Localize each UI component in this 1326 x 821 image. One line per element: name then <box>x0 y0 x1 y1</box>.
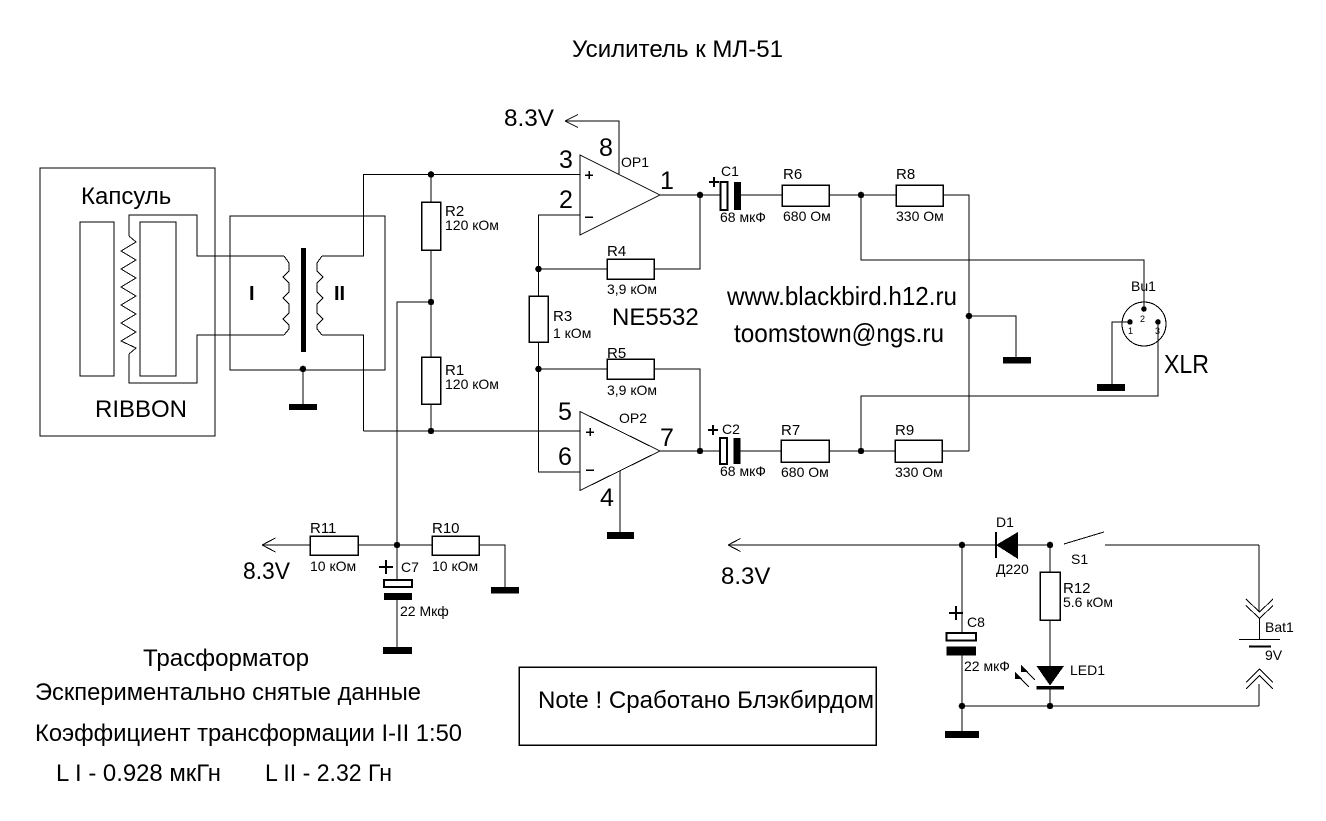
wire OP2 output <box>660 450 700 452</box>
svg-text:toomstown@ngs.ru: toomstown@ngs.ru <box>734 318 944 348</box>
svg-text:Капсуль: Капсуль <box>81 183 171 210</box>
title <box>572 36 783 63</box>
svg-text:5.6 кОм: 5.6 кОм <box>1063 594 1113 610</box>
resistor R3 <box>529 269 591 369</box>
node C8 top junction <box>959 542 966 549</box>
svg-text:4: 4 <box>600 484 614 512</box>
bottom rail wire <box>962 705 1259 707</box>
ground (XLR pin1) <box>1097 384 1125 391</box>
capacitor C2 <box>700 421 781 479</box>
capacitor C8 <box>947 545 1010 706</box>
wire winding II top to node <box>322 174 364 256</box>
node output divider ground tap <box>966 313 1016 357</box>
svg-text:L II - 2.32 Гн: L II - 2.32 Гн <box>265 760 392 787</box>
resistor R11 <box>310 520 432 574</box>
svg-text:120 кОм: 120 кОм <box>445 376 499 392</box>
svg-text:120 кОм: 120 кОм <box>445 217 499 233</box>
note box <box>519 667 876 745</box>
svg-text:680 Ом: 680 Ом <box>783 208 831 224</box>
wire R6/R8 node to XLR pin2 <box>861 195 1144 309</box>
svg-text:10 кОм: 10 кОм <box>432 558 478 574</box>
capacitor C1 <box>700 163 782 225</box>
svg-text:Коэффициент трансформации I-II: Коэффициент трансформации I-II 1:50 <box>35 720 462 747</box>
wire XLR pin1 to ground <box>1112 322 1130 384</box>
svg-text:1: 1 <box>660 167 674 195</box>
ground (R10) <box>491 587 519 594</box>
svg-text:Усилитель к МЛ-51: Усилитель к МЛ-51 <box>572 36 783 63</box>
svg-text:RIBBON: RIBBON <box>95 396 187 423</box>
wire winding II bottom to lower rail <box>322 335 364 431</box>
svg-text:C8: C8 <box>967 614 985 630</box>
svg-text:R5: R5 <box>607 345 626 362</box>
resistor R2 <box>422 174 499 302</box>
node R2/R1 midpoint <box>428 299 435 306</box>
wire OP1 pin8 to 8.3V <box>565 121 619 174</box>
svg-text:8.3V: 8.3V <box>504 105 554 132</box>
svg-text:R8: R8 <box>896 166 915 183</box>
svg-text:R3: R3 <box>553 308 572 325</box>
wire ribbon bottom terminal bracket <box>129 335 284 383</box>
svg-text:22 мкФ: 22 мкФ <box>964 658 1010 674</box>
ground (C7) <box>383 647 412 654</box>
node bias junction <box>394 542 401 549</box>
node R6/R8 <box>858 192 865 199</box>
magnet right bar <box>140 222 176 376</box>
svg-text:C7: C7 <box>401 559 419 575</box>
svg-text:330 Ом: 330 Ом <box>895 464 943 480</box>
svg-text:www.blackbird.h12.ru: www.blackbird.h12.ru <box>726 281 957 311</box>
website text <box>726 281 957 311</box>
svg-text:8.3V: 8.3V <box>243 558 290 585</box>
transformer data text <box>35 645 462 787</box>
8.3V arrow (power output) <box>721 539 962 591</box>
capacitor C7 <box>379 545 449 647</box>
op-amp OP1 <box>559 134 674 235</box>
capsule box <box>40 168 215 436</box>
wire top rail to OP1 pin3 <box>364 174 581 176</box>
ribbon element (zigzag) <box>121 236 136 354</box>
svg-text:S1: S1 <box>1071 551 1088 567</box>
node R7/R9 <box>858 448 865 455</box>
svg-text:1 кОм: 1 кОм <box>553 325 591 341</box>
svg-text:OP1: OP1 <box>621 154 649 170</box>
wire R7/R9 node to XLR pin3 <box>861 322 1158 451</box>
svg-text:Bu1: Bu1 <box>1131 278 1156 294</box>
svg-text:R7: R7 <box>781 422 800 439</box>
svg-text:D1: D1 <box>996 514 1014 530</box>
NE5532 label <box>612 304 699 331</box>
node top rail / R2 <box>428 171 435 178</box>
node C8 bottom junction <box>959 703 966 731</box>
svg-text:9V: 9V <box>1265 647 1283 663</box>
svg-text:6: 6 <box>558 443 572 471</box>
node OP2 output <box>697 448 704 455</box>
svg-text:Note ! Сработано Блэкбирдом: Note ! Сработано Блэкбирдом <box>538 687 874 714</box>
battery Bat1 <box>1239 545 1294 706</box>
svg-text:Bat1: Bat1 <box>1265 619 1294 635</box>
svg-text:Трасформатор: Трасформатор <box>143 645 309 672</box>
svg-text:R4: R4 <box>607 243 626 260</box>
svg-text:330 Ом: 330 Ом <box>896 208 944 224</box>
svg-text:68 мкФ: 68 мкФ <box>720 463 766 479</box>
svg-text:C2: C2 <box>722 421 740 437</box>
8.3V arrow (top) <box>504 105 578 132</box>
switch S1 <box>1064 532 1259 567</box>
svg-text:R9: R9 <box>895 422 914 439</box>
svg-text:R10: R10 <box>432 520 460 537</box>
transformer winding II <box>317 256 345 335</box>
magnet left bar <box>80 222 114 376</box>
svg-text:1: 1 <box>1128 326 1133 336</box>
resistor R6 <box>782 166 896 224</box>
ground (OP2 pin4) <box>607 532 634 539</box>
svg-text:22 Мкф: 22 Мкф <box>400 603 449 619</box>
transformer core <box>301 248 306 352</box>
svg-text:5: 5 <box>558 398 572 426</box>
resistor R12 <box>1040 545 1113 666</box>
node R3/R5 junction <box>535 366 542 373</box>
svg-text:Д220: Д220 <box>996 561 1029 577</box>
resistor R9 <box>895 422 969 480</box>
node OP1 output <box>697 192 704 199</box>
svg-text:3,9 кОм: 3,9 кОм <box>607 281 657 297</box>
wire OP1 pin2 <box>539 215 581 269</box>
XLR connector Bu1 <box>1122 278 1209 379</box>
resistor R7 <box>781 422 895 480</box>
svg-text:II: II <box>334 283 345 305</box>
transformer T1 shield box <box>230 216 385 370</box>
svg-text:3: 3 <box>559 146 573 174</box>
transformer shield ground node <box>300 366 307 404</box>
transformer winding I <box>249 256 289 335</box>
wire R3 junction to OP2 pin6 <box>539 369 581 472</box>
ground (transformer) <box>289 404 317 410</box>
svg-text:68 мкФ: 68 мкФ <box>720 209 766 225</box>
wire ribbon top terminal bracket <box>129 215 284 256</box>
svg-text:C1: C1 <box>721 163 739 179</box>
svg-text:8: 8 <box>599 134 613 162</box>
wire OP1 output <box>660 194 700 196</box>
8.3V arrow (bias rail) <box>243 538 310 585</box>
svg-text:7: 7 <box>660 424 674 452</box>
node LED bottom <box>1047 703 1054 710</box>
svg-text:L I - 0.928 мкГн: L I - 0.928 мкГн <box>56 760 221 787</box>
svg-text:XLR: XLR <box>1164 349 1209 379</box>
svg-text:3,9 кОм: 3,9 кОм <box>607 382 657 398</box>
resistor R1 <box>422 302 499 431</box>
svg-text:NE5532: NE5532 <box>612 304 699 331</box>
node D1/S1/R12 junction <box>1047 542 1054 549</box>
wire OP2 pin4 to ground <box>619 471 621 532</box>
svg-text:OP2: OP2 <box>619 410 647 426</box>
svg-text:Эскпериментально снятые данные: Эскпериментально снятые данные <box>35 679 421 706</box>
resistor R5 feedback <box>539 345 701 451</box>
svg-text:8.3V: 8.3V <box>721 563 770 590</box>
svg-text:2: 2 <box>1140 314 1145 324</box>
svg-text:R11: R11 <box>310 520 336 537</box>
svg-text:R6: R6 <box>783 166 802 183</box>
op-amp OP2 <box>558 398 674 512</box>
ground (output tap) <box>1003 357 1031 364</box>
email text <box>734 318 944 348</box>
resistor R10 <box>432 520 505 587</box>
svg-text:10 кОм: 10 кОм <box>310 558 356 574</box>
svg-text:I: I <box>249 283 255 305</box>
wire midpoint tap to bias junction <box>397 302 431 545</box>
node R1 bottom on lower rail <box>428 428 435 435</box>
resistor R4 feedback <box>535 195 700 297</box>
resistor R8 <box>896 166 969 451</box>
svg-text:2: 2 <box>559 186 573 214</box>
svg-text:LED1: LED1 <box>1070 662 1105 678</box>
svg-text:680 Ом: 680 Ом <box>781 464 829 480</box>
LED LED1 <box>1015 662 1105 706</box>
diode D1 <box>962 514 1050 577</box>
svg-text:3: 3 <box>1155 326 1160 336</box>
ground (C8) <box>945 731 979 738</box>
wire lower rail to OP2 pin5 <box>364 430 581 432</box>
